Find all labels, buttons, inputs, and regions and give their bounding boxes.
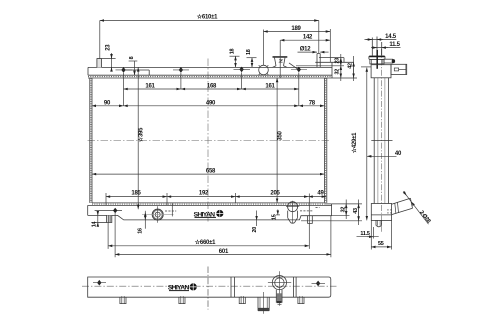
svg-text:14.5: 14.5 xyxy=(385,34,397,40)
svg-text:42: 42 xyxy=(348,63,354,69)
svg-text:189: 189 xyxy=(291,26,301,32)
svg-text:205: 205 xyxy=(270,190,280,196)
svg-text:☆610±1: ☆610±1 xyxy=(197,14,218,21)
svg-text:☆660±1: ☆660±1 xyxy=(195,239,216,246)
svg-text:55: 55 xyxy=(378,241,384,247)
svg-text:23: 23 xyxy=(335,58,341,64)
svg-text:658: 658 xyxy=(206,169,216,175)
svg-text:49: 49 xyxy=(317,190,324,196)
svg-text:168: 168 xyxy=(207,84,217,90)
svg-text:20: 20 xyxy=(252,227,258,233)
svg-text:11.5: 11.5 xyxy=(360,231,369,237)
svg-text:350: 350 xyxy=(278,130,284,140)
svg-text:185: 185 xyxy=(131,190,141,196)
svg-text:32: 32 xyxy=(335,69,341,75)
svg-text:161: 161 xyxy=(265,84,275,90)
svg-text:☆395: ☆395 xyxy=(138,127,145,142)
svg-text:78: 78 xyxy=(309,100,316,106)
svg-text:90: 90 xyxy=(104,100,111,106)
svg-text:8: 8 xyxy=(129,56,135,59)
svg-text:☆429±1: ☆429±1 xyxy=(351,132,358,153)
svg-text:18: 18 xyxy=(246,49,252,55)
svg-text:142: 142 xyxy=(303,35,313,41)
svg-text:192: 192 xyxy=(199,190,209,196)
svg-text:43: 43 xyxy=(353,208,359,214)
svg-text:14: 14 xyxy=(92,222,98,228)
svg-text:18: 18 xyxy=(230,49,236,55)
svg-text:16: 16 xyxy=(138,228,144,234)
svg-text:15: 15 xyxy=(271,214,277,220)
svg-text:40: 40 xyxy=(395,151,402,157)
svg-text:Ø12: Ø12 xyxy=(300,46,312,52)
svg-text:601: 601 xyxy=(219,249,229,255)
svg-text:32: 32 xyxy=(341,207,347,213)
svg-text:490: 490 xyxy=(206,100,216,106)
svg-text:11.5: 11.5 xyxy=(389,42,400,48)
svg-text:23: 23 xyxy=(105,44,111,51)
svg-text:161: 161 xyxy=(145,84,155,90)
